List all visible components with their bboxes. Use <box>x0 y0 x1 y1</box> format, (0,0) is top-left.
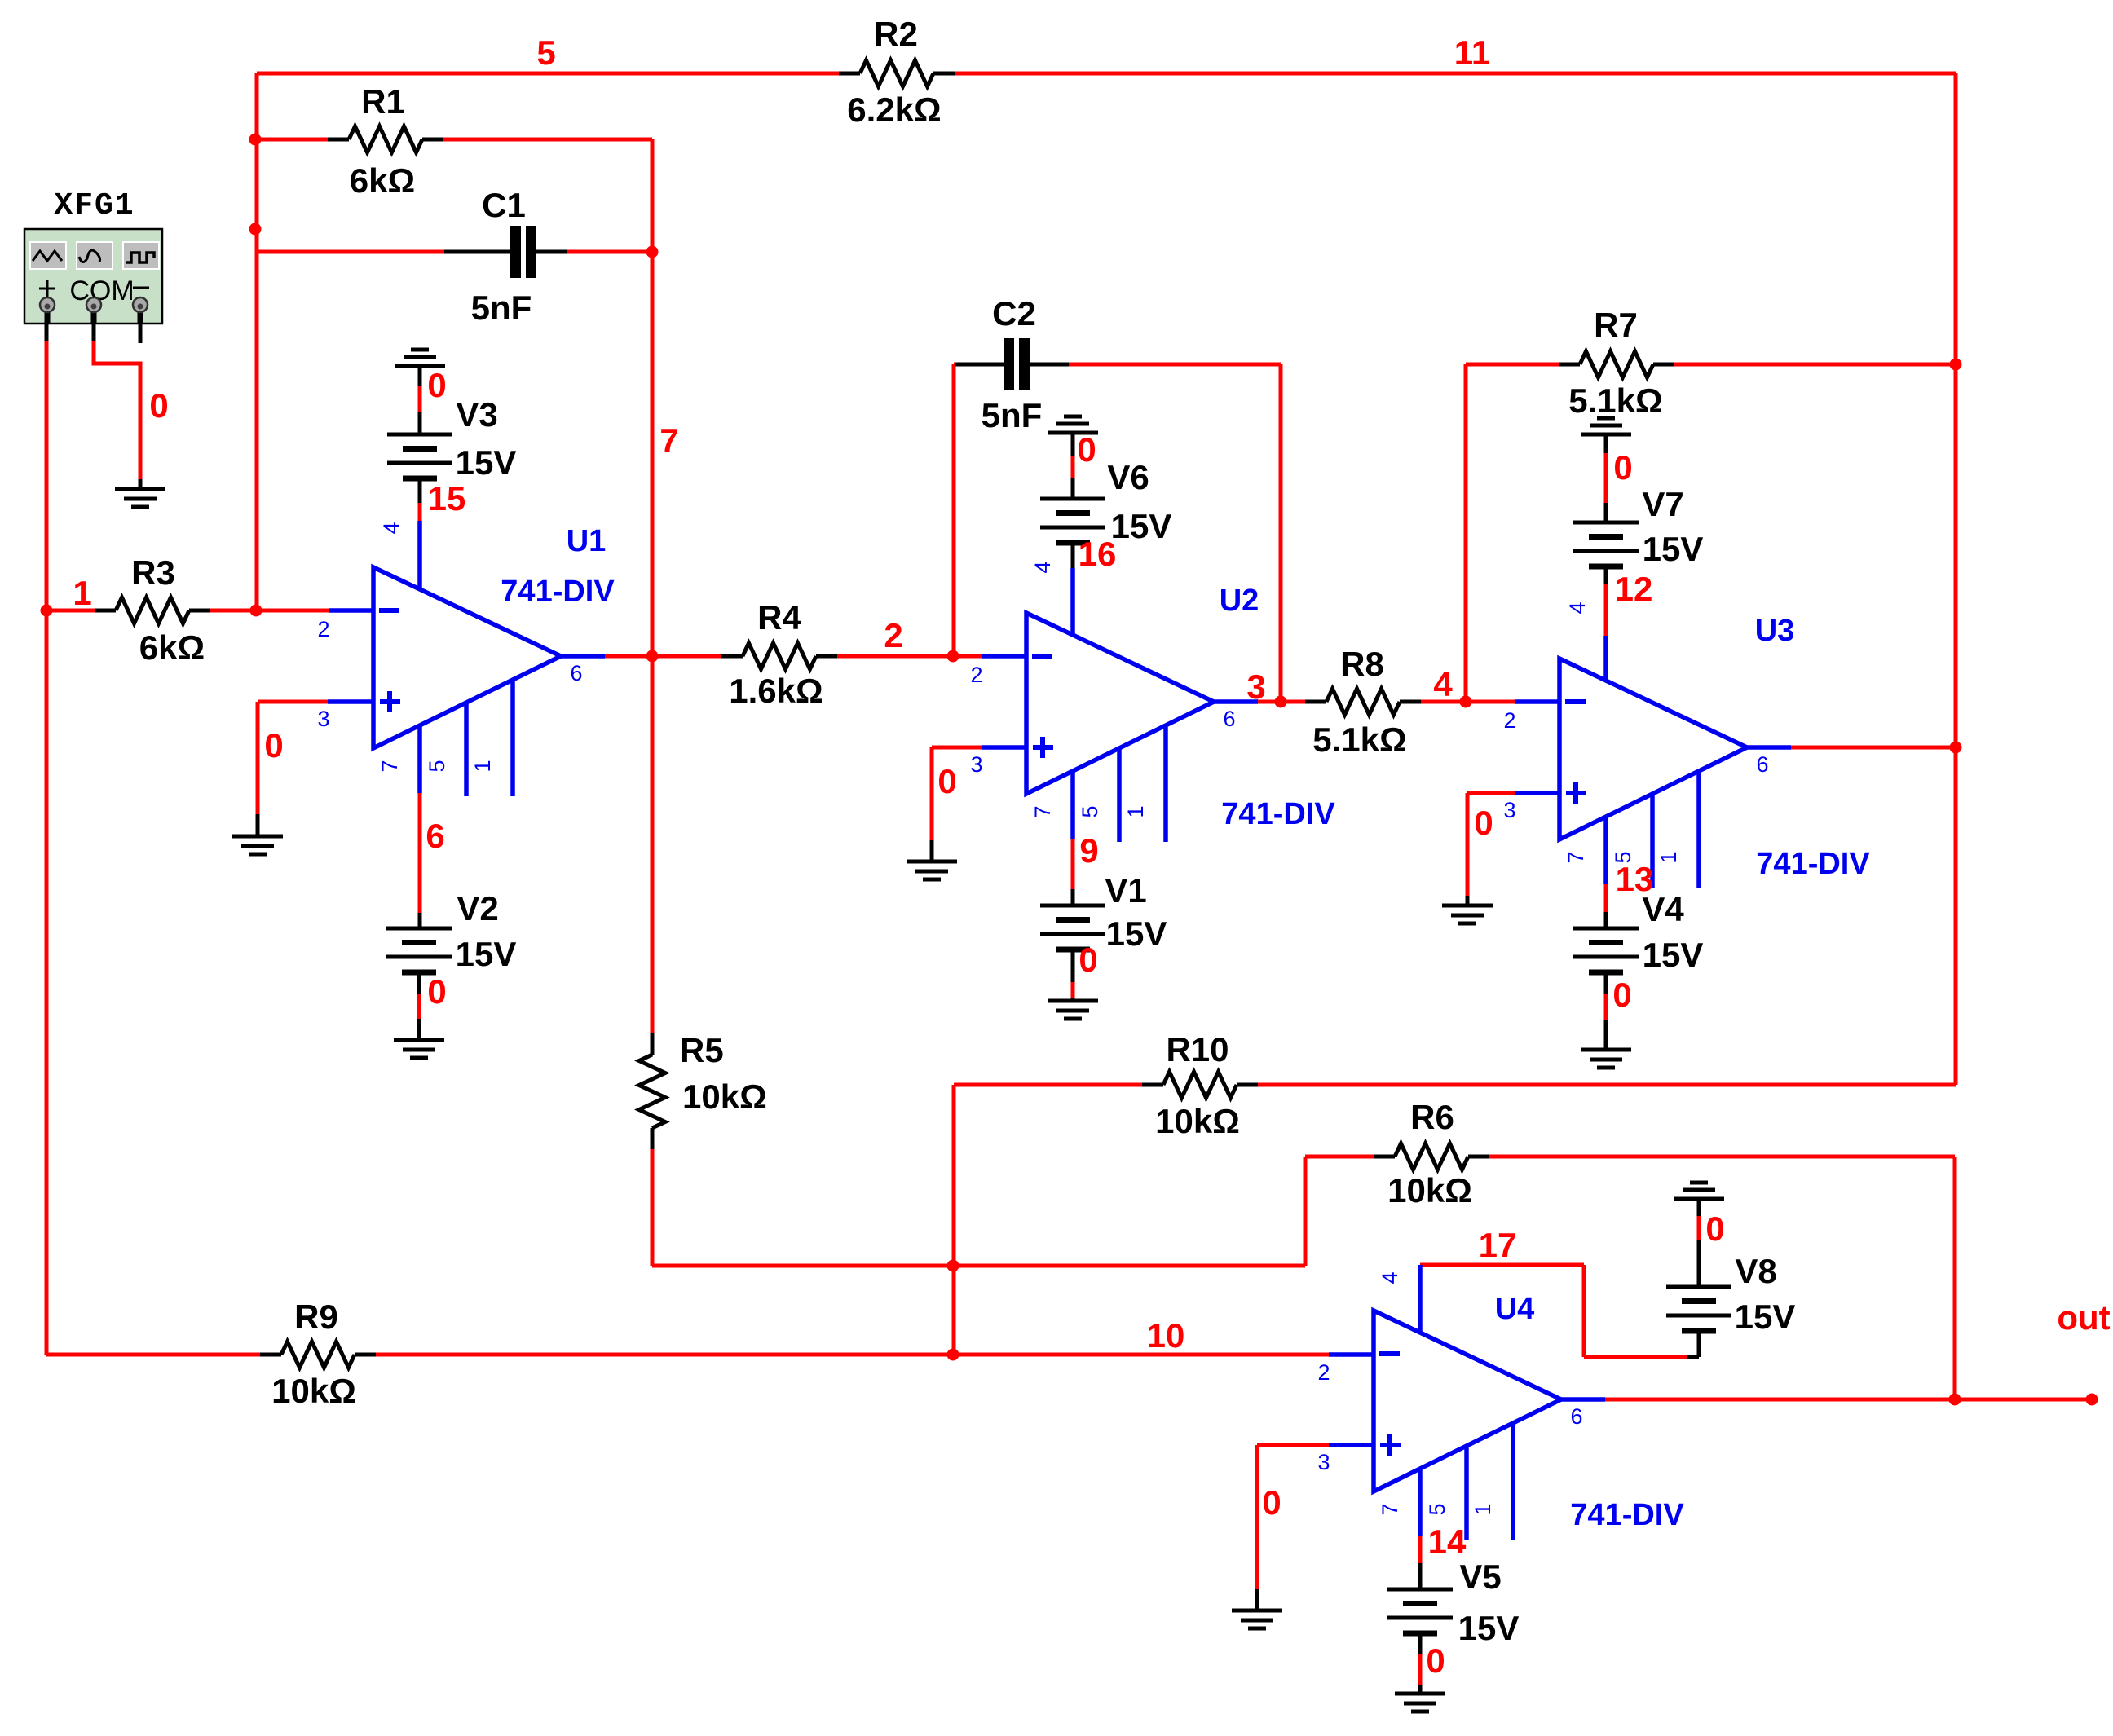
resistor R4 <box>721 598 837 710</box>
svg-text:3: 3 <box>1317 1450 1330 1474</box>
ground below V1 <box>1048 1001 1098 1019</box>
svg-text:out: out <box>2057 1298 2110 1337</box>
svg-text:5: 5 <box>536 33 555 72</box>
svg-text:7: 7 <box>659 421 678 460</box>
svg-text:0: 0 <box>937 762 956 800</box>
wire U2 output node 3 <box>1214 699 1305 704</box>
svg-text:COM: COM <box>69 275 134 306</box>
svg-text:3: 3 <box>1246 668 1265 706</box>
op-amp U2 <box>970 561 1235 842</box>
ground below V2 <box>394 1040 444 1058</box>
junction <box>249 223 262 236</box>
ground above V6 <box>1048 416 1098 456</box>
wire U1 pin4 <box>417 521 422 590</box>
svg-text:R8: R8 <box>1340 645 1384 683</box>
svg-text:10kΩ: 10kΩ <box>1387 1171 1472 1209</box>
svg-text:2: 2 <box>970 663 982 687</box>
svg-text:1: 1 <box>1656 851 1681 863</box>
svg-text:6.2kΩ: 6.2kΩ <box>847 90 941 129</box>
node 4 label <box>1433 665 1453 703</box>
svg-text:0: 0 <box>1613 448 1632 487</box>
node 0 label <box>1262 1483 1281 1522</box>
svg-text:R5: R5 <box>680 1031 724 1069</box>
svg-text:7: 7 <box>1030 805 1055 817</box>
svg-text:R3: R3 <box>131 553 175 592</box>
wire node 17 U4 pin4 to V8 <box>1420 1265 1699 1357</box>
svg-text:5nF: 5nF <box>471 289 532 327</box>
svg-text:15V: 15V <box>456 443 517 482</box>
ground U3 plus input <box>1442 905 1493 923</box>
svg-text:0: 0 <box>264 726 283 764</box>
node 0 label <box>1077 430 1096 469</box>
svg-text:10kΩ: 10kΩ <box>682 1077 767 1116</box>
ground below V5 <box>1395 1694 1445 1712</box>
svg-text:5: 5 <box>425 760 449 772</box>
svg-text:10: 10 <box>1147 1316 1185 1355</box>
node 0 label <box>427 972 446 1011</box>
junction <box>41 605 53 617</box>
wire node 1 vertical <box>45 610 49 1355</box>
junction <box>947 1260 959 1272</box>
svg-text:6: 6 <box>570 661 582 685</box>
svg-text:12: 12 <box>1615 570 1653 608</box>
node 10 label <box>1147 1316 1185 1355</box>
ground U2 plus input <box>907 861 957 879</box>
wire U4 pin4 blue <box>1418 1265 1423 1333</box>
wire C2 row <box>954 363 1281 367</box>
svg-text:0: 0 <box>1705 1209 1724 1248</box>
wire U1 pin7 <box>418 793 422 928</box>
svg-text:15V: 15V <box>1643 530 1704 568</box>
capacitor C2 <box>955 294 1069 434</box>
svg-text:6kΩ: 6kΩ <box>350 161 415 200</box>
ground below V4 <box>1581 1050 1631 1068</box>
resistor R6 <box>1374 1098 1489 1209</box>
wire C2 left vertical <box>952 364 956 656</box>
svg-text:U1: U1 <box>567 524 607 558</box>
battery V3 <box>387 386 516 521</box>
junction <box>1949 1394 1961 1406</box>
junction <box>1950 359 1962 371</box>
svg-text:0: 0 <box>1079 941 1097 979</box>
wire U4 output node out <box>1561 1397 2092 1402</box>
battery V6 <box>1040 456 1171 568</box>
op-amp U1 <box>317 522 582 796</box>
node 1 label <box>73 574 91 612</box>
svg-text:15V: 15V <box>456 935 517 973</box>
wire R6 left vertical <box>1304 1157 1308 1266</box>
wire U1 noninverting input <box>258 702 373 836</box>
resistor R7 <box>1559 306 1674 420</box>
node 0 label <box>1613 448 1632 487</box>
svg-text:5: 5 <box>1078 805 1102 817</box>
svg-text:U3: U3 <box>1755 614 1795 648</box>
junction <box>1275 696 1287 708</box>
wire node 5 top horizontal <box>257 72 1956 76</box>
wire R8 to U3 node 4 <box>1421 700 1559 704</box>
wire R5 bottom link <box>652 1149 1305 1266</box>
svg-text:0: 0 <box>1474 804 1493 842</box>
svg-text:2: 2 <box>884 616 902 654</box>
wire U1 output node 7 <box>561 654 721 659</box>
wire R10 row <box>954 1083 1956 1087</box>
node 0 label <box>1612 976 1631 1014</box>
svg-text:5: 5 <box>1425 1503 1449 1515</box>
svg-text:5nF: 5nF <box>982 396 1043 434</box>
wire U3 pin7 <box>1604 884 1608 928</box>
svg-text:15V: 15V <box>1458 1609 1520 1647</box>
svg-text:3: 3 <box>317 707 329 731</box>
svg-text:0: 0 <box>1262 1483 1281 1522</box>
resistor R2 <box>839 15 955 129</box>
svg-text:0: 0 <box>427 366 446 404</box>
svg-text:C2: C2 <box>992 294 1036 333</box>
svg-text:17: 17 <box>1479 1226 1517 1264</box>
op-amp U3 labels <box>1755 614 1871 881</box>
ground above V8 <box>1674 1183 1724 1216</box>
capacitor C1 <box>444 186 567 327</box>
svg-text:0: 0 <box>149 386 168 425</box>
svg-text:10kΩ: 10kΩ <box>1155 1102 1240 1140</box>
wire C1 row <box>257 250 652 254</box>
battery V4 <box>1573 890 1703 1050</box>
node 0 label <box>1426 1641 1445 1680</box>
svg-text:7: 7 <box>1564 851 1588 863</box>
svg-text:3: 3 <box>970 752 982 777</box>
wire U3 noninverting input <box>1467 793 1559 905</box>
wire U4 noninverting input <box>1257 1445 1374 1610</box>
svg-text:6: 6 <box>1223 707 1235 731</box>
svg-text:9: 9 <box>1079 831 1098 870</box>
svg-text:15V: 15V <box>1111 507 1172 545</box>
svg-text:16: 16 <box>1079 535 1117 573</box>
node 0 label <box>1079 941 1097 979</box>
resistor R9 <box>260 1298 376 1410</box>
junction <box>646 650 659 663</box>
wire U4 pin7 <box>1418 1536 1423 1589</box>
svg-text:4: 4 <box>1565 601 1590 614</box>
svg-text:V6: V6 <box>1107 458 1149 496</box>
wire R6 right vertical <box>1953 1157 1957 1399</box>
battery V7 <box>1573 453 1703 636</box>
junction <box>249 134 262 146</box>
wire node 10 row <box>46 1353 1374 1357</box>
svg-text:13: 13 <box>1616 860 1654 898</box>
wire XFG1 com lead <box>94 317 140 489</box>
svg-text:R1: R1 <box>361 82 405 121</box>
svg-text:R10: R10 <box>1166 1030 1229 1068</box>
junction <box>250 605 262 617</box>
wire R1 row <box>255 138 652 142</box>
junction <box>1950 742 1962 754</box>
svg-text:1: 1 <box>470 760 495 772</box>
svg-text:10kΩ: 10kΩ <box>271 1372 356 1410</box>
svg-text:3: 3 <box>1503 798 1515 822</box>
node 0 label <box>149 386 168 425</box>
op-amp U2 labels <box>1220 584 1336 831</box>
svg-text:741-DIV: 741-DIV <box>501 575 615 609</box>
node 3 label <box>1246 668 1265 706</box>
resistor R5 <box>639 1031 767 1149</box>
battery V2 <box>386 889 516 1040</box>
svg-text:7: 7 <box>1378 1503 1402 1515</box>
wire U2 pin7 <box>1071 839 1075 905</box>
wire R6 row <box>1305 1155 1955 1159</box>
svg-text:R4: R4 <box>757 598 801 637</box>
svg-text:15: 15 <box>428 479 466 518</box>
svg-text:2: 2 <box>317 617 329 641</box>
node 16 label <box>1079 535 1117 573</box>
svg-text:U2: U2 <box>1220 584 1259 618</box>
svg-text:V5: V5 <box>1459 1558 1501 1596</box>
svg-text:2: 2 <box>1317 1360 1330 1385</box>
junction <box>646 246 659 258</box>
battery V8 <box>1666 1216 1795 1357</box>
svg-text:14: 14 <box>1428 1522 1467 1561</box>
svg-text:0: 0 <box>1426 1641 1445 1680</box>
wire U2 noninverting input <box>932 747 1026 861</box>
svg-text:741-DIV: 741-DIV <box>1221 797 1335 831</box>
wire XFG1 minus stub <box>139 317 143 343</box>
function generator XFG1 <box>24 188 162 324</box>
svg-text:0: 0 <box>427 972 446 1011</box>
node 5 label <box>536 33 555 72</box>
svg-text:11: 11 <box>1454 33 1490 72</box>
node 0 label <box>1705 1209 1724 1248</box>
node 0 label <box>1474 804 1493 842</box>
svg-text:15V: 15V <box>1643 936 1704 974</box>
svg-text:V2: V2 <box>457 889 498 927</box>
wire U2 pin4 <box>1070 568 1075 636</box>
svg-text:V3: V3 <box>456 395 497 434</box>
ground XFG1 com <box>115 489 165 507</box>
svg-text:6: 6 <box>1570 1404 1582 1429</box>
node 0 label <box>937 762 956 800</box>
svg-text:741-DIV: 741-DIV <box>1756 847 1870 881</box>
node 14 label <box>1428 1522 1467 1561</box>
svg-text:5.1kΩ: 5.1kΩ <box>1312 720 1406 759</box>
node 0 label <box>427 366 446 404</box>
svg-text:6kΩ: 6kΩ <box>139 628 205 667</box>
junction <box>947 1349 959 1361</box>
junction <box>947 650 959 663</box>
svg-text:6: 6 <box>426 817 444 855</box>
op-amp U4 labels <box>1495 1292 1685 1532</box>
svg-text:4: 4 <box>379 522 404 534</box>
node 15 label <box>428 479 466 518</box>
resistor R1 <box>328 82 443 200</box>
op-amp U1 labels <box>501 524 615 609</box>
wire right vertical node 11 <box>1954 73 1958 1085</box>
ground above V7 <box>1581 418 1631 453</box>
wire R7 left vertical <box>1464 364 1468 702</box>
node 12 label <box>1615 570 1653 608</box>
battery V1 <box>1040 871 1167 1001</box>
resistor R8 <box>1305 645 1421 759</box>
wire C2 right vertical <box>1279 364 1283 702</box>
svg-text:1: 1 <box>1123 805 1148 817</box>
svg-text:U4: U4 <box>1495 1292 1535 1326</box>
svg-text:V7: V7 <box>1642 485 1683 523</box>
node 11 label <box>1454 33 1490 72</box>
svg-text:4: 4 <box>1378 1271 1402 1284</box>
wire XFG1 plus lead <box>45 317 49 610</box>
node 7 label <box>659 421 678 460</box>
svg-text:XFG1: XFG1 <box>54 188 135 223</box>
battery V5 <box>1387 1558 1519 1694</box>
wire mid vertical node 10 <box>952 1085 956 1355</box>
resistor R10 <box>1142 1030 1258 1140</box>
node 0 label <box>264 726 283 764</box>
svg-text:1: 1 <box>1471 1503 1495 1515</box>
resistor R3 <box>95 553 210 667</box>
ground U4 plus input <box>1232 1610 1282 1628</box>
svg-text:0: 0 <box>1077 430 1096 469</box>
svg-text:C1: C1 <box>482 186 526 224</box>
node 13 label <box>1616 860 1654 898</box>
wire R7 row <box>1466 363 1956 367</box>
junction <box>2086 1394 2098 1406</box>
op-amp U3 <box>1503 601 1768 888</box>
svg-text:0: 0 <box>1612 976 1631 1014</box>
svg-text:R7: R7 <box>1594 306 1638 344</box>
svg-text:1: 1 <box>73 574 91 612</box>
op-amp U4 <box>1317 1271 1582 1540</box>
junction <box>1460 696 1472 708</box>
wire R4 to U2 node 2 <box>837 654 1026 659</box>
svg-text:6: 6 <box>1756 752 1768 777</box>
wire U3 output <box>1747 745 1956 750</box>
svg-text:R2: R2 <box>874 15 918 53</box>
svg-text:741-DIV: 741-DIV <box>1570 1498 1684 1532</box>
wire R3 row node 1 <box>46 609 373 613</box>
svg-text:V8: V8 <box>1735 1252 1776 1290</box>
svg-text:4: 4 <box>1030 561 1055 573</box>
node out label <box>2057 1298 2110 1337</box>
ground U1 plus input <box>232 836 283 854</box>
svg-text:R6: R6 <box>1410 1098 1454 1136</box>
svg-text:15V: 15V <box>1106 914 1167 953</box>
svg-text:R9: R9 <box>294 1298 338 1336</box>
svg-text:4: 4 <box>1433 665 1453 703</box>
svg-text:2: 2 <box>1503 708 1515 733</box>
svg-text:5.1kΩ: 5.1kΩ <box>1568 381 1662 420</box>
node 2 label <box>884 616 902 654</box>
wire node 7 vertical <box>651 139 655 1033</box>
node 6 label <box>426 817 444 855</box>
ground above V3 <box>395 350 445 386</box>
node 9 label <box>1079 831 1098 870</box>
node 17 label <box>1479 1226 1517 1264</box>
wire left vertical node 5 <box>255 73 259 610</box>
svg-text:7: 7 <box>377 760 402 772</box>
wire U3 pin4 <box>1603 636 1608 681</box>
svg-text:V1: V1 <box>1105 871 1146 910</box>
svg-text:1.6kΩ: 1.6kΩ <box>729 672 823 710</box>
svg-text:15V: 15V <box>1735 1298 1796 1336</box>
